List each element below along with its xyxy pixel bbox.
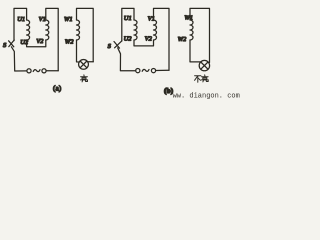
lamp circle (b) bbox=[199, 60, 209, 70]
label bu liang not bright (b): chars 不亮 bbox=[195, 75, 209, 82]
wire switch lower lead (a) bbox=[11, 47, 27, 71]
inductor W coil (b) bbox=[190, 20, 193, 40]
svg-text:U1: U1 bbox=[17, 16, 25, 23]
lamp cross (a) bbox=[80, 61, 87, 68]
svg-text:U2: U2 bbox=[124, 36, 133, 43]
svg-text:S: S bbox=[3, 42, 7, 49]
svg-text:(a): (a) bbox=[53, 84, 62, 93]
wire rail from source to lamp branch (a) bbox=[46, 70, 58, 72]
svg-text:U1: U1 bbox=[124, 15, 132, 22]
AC source tilde (a) bbox=[33, 70, 40, 72]
wire supply left + top bar1 (a) bbox=[14, 8, 27, 40]
label liang bright (a): char 亮 bbox=[80, 75, 87, 82]
AC source terminal circle left (a) bbox=[27, 69, 31, 73]
svg-text:W1: W1 bbox=[64, 16, 73, 23]
svg-text:S: S bbox=[108, 43, 112, 50]
inductor V coil (a) bbox=[46, 20, 49, 40]
svg-text:V1: V1 bbox=[39, 16, 46, 23]
wire supply left + top bar1 (b) bbox=[122, 8, 134, 41]
wire lamp right arm (a) bbox=[88, 61, 94, 63]
svg-text:V2: V2 bbox=[145, 36, 153, 43]
inductor U coil (a) bbox=[27, 20, 30, 40]
lamp cross (b) bbox=[201, 62, 208, 69]
inductor W coil (a) bbox=[77, 20, 80, 40]
svg-text:W2: W2 bbox=[65, 38, 74, 45]
switch S blade (a) bbox=[9, 40, 14, 47]
AC source tilde (b) bbox=[142, 69, 149, 71]
svg-text:ww. diangon. com: ww. diangon. com bbox=[173, 92, 240, 100]
wire top bar3 (a) bbox=[77, 8, 94, 61]
svg-text:U2: U2 bbox=[20, 39, 29, 46]
wire W2 stem down (a) bbox=[77, 40, 80, 62]
lamp circle (a) bbox=[79, 60, 89, 70]
AC source terminal circle left (b) bbox=[136, 69, 140, 73]
svg-text:V2: V2 bbox=[36, 38, 44, 45]
wire cup U2-V2 (a) bbox=[27, 40, 46, 47]
svg-text:W1: W1 bbox=[184, 14, 193, 21]
wire W2 stem down (b) bbox=[190, 40, 200, 62]
wire top bar3 (b) bbox=[190, 8, 210, 62]
inductor V coil (b) bbox=[154, 20, 157, 40]
inductor U coil (b) bbox=[134, 20, 137, 40]
wire rail from source to riser (b) bbox=[156, 69, 169, 71]
AC source terminal circle right (b) bbox=[151, 69, 155, 73]
svg-text:W2: W2 bbox=[178, 36, 187, 43]
AC source terminal circle right (a) bbox=[42, 69, 46, 73]
switch S blade (b) bbox=[115, 41, 122, 48]
wire top bar2 + riser to rail (a) bbox=[46, 8, 58, 70]
switch S cross tick (b) bbox=[114, 42, 120, 49]
wire cup U2-V2 (b) bbox=[134, 40, 154, 46]
wire switch lower lead (b) bbox=[118, 48, 136, 71]
switch S cross tick (a) bbox=[9, 41, 14, 47]
wire top bar2 + riser to rail (b) bbox=[154, 8, 170, 70]
